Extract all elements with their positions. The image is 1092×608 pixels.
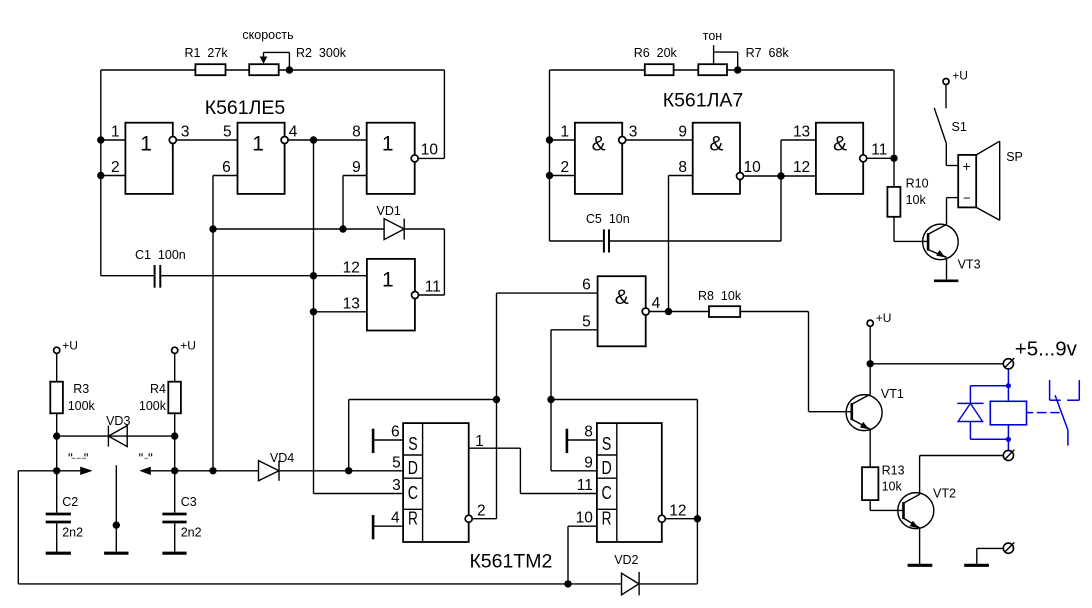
svg-text:9: 9 (584, 454, 593, 471)
svg-text:3: 3 (181, 124, 190, 141)
svg-text:VD4: VD4 (270, 451, 294, 465)
svg-text:VT1: VT1 (881, 387, 904, 401)
svg-text:6: 6 (222, 159, 231, 176)
svg-text:100k: 100k (68, 399, 96, 413)
svg-text:VD2: VD2 (614, 553, 638, 567)
svg-text:R10: R10 (906, 177, 929, 191)
svg-text:VD1: VD1 (377, 204, 401, 218)
svg-text:S1: S1 (952, 120, 967, 134)
svg-text:1: 1 (560, 124, 569, 141)
svg-text:R2 300k: R2 300k (296, 46, 347, 60)
svg-text:100k: 100k (139, 399, 167, 413)
svg-text:S: S (602, 434, 611, 454)
svg-text:R: R (602, 508, 612, 528)
svg-text:тон: тон (703, 29, 723, 43)
svg-text:8: 8 (678, 159, 687, 176)
svg-text:10: 10 (744, 159, 762, 176)
svg-text:11: 11 (425, 278, 441, 295)
svg-text:+U: +U (876, 311, 892, 325)
svg-text:скорость: скорость (242, 28, 293, 42)
svg-text:2n2: 2n2 (62, 526, 83, 540)
svg-text:C3: C3 (181, 495, 197, 509)
svg-text:6: 6 (582, 277, 591, 294)
svg-text:R8 10k: R8 10k (698, 289, 742, 303)
svg-text:2: 2 (111, 159, 120, 176)
svg-text:R3: R3 (73, 382, 89, 396)
svg-text:10k: 10k (882, 480, 903, 494)
svg-text:C: C (601, 483, 611, 503)
svg-text:К561ЛА7: К561ЛА7 (663, 90, 744, 112)
svg-text:C: C (408, 483, 418, 503)
svg-text:12: 12 (669, 503, 686, 520)
svg-text:R7 68k: R7 68k (746, 46, 790, 60)
svg-text:К561ЛЕ5: К561ЛЕ5 (205, 97, 286, 119)
svg-text:8: 8 (584, 424, 593, 441)
svg-text:D: D (602, 458, 612, 478)
svg-text:12: 12 (343, 259, 360, 276)
svg-text:&: & (833, 133, 847, 156)
svg-text:VT2: VT2 (933, 487, 956, 501)
svg-text:1: 1 (382, 269, 394, 292)
svg-text:4: 4 (391, 510, 400, 527)
svg-text:3: 3 (629, 124, 638, 141)
svg-text:4: 4 (652, 295, 661, 312)
svg-text:13: 13 (343, 295, 360, 312)
svg-text:1: 1 (475, 433, 484, 450)
svg-text:C2: C2 (62, 495, 78, 509)
svg-text:9: 9 (352, 159, 361, 176)
svg-text:11: 11 (577, 477, 593, 494)
svg-text:5: 5 (392, 454, 401, 471)
svg-text:−: − (963, 191, 971, 206)
svg-text:8: 8 (352, 124, 361, 141)
svg-text:R1 27k: R1 27k (185, 46, 229, 60)
svg-text:C1 100n: C1 100n (135, 248, 186, 262)
svg-text:12: 12 (793, 159, 810, 176)
svg-text:К561ТМ2: К561ТМ2 (469, 550, 552, 572)
svg-text:2: 2 (560, 159, 569, 176)
svg-text:+5...9v: +5...9v (1015, 338, 1078, 361)
svg-text:5: 5 (223, 124, 232, 141)
svg-text:&: & (709, 133, 723, 156)
svg-text:D: D (408, 458, 418, 478)
svg-text:13: 13 (793, 124, 810, 141)
svg-text:+: + (963, 158, 971, 174)
svg-text:3: 3 (392, 477, 401, 494)
svg-text:10: 10 (421, 142, 439, 159)
svg-text:R13: R13 (882, 464, 905, 478)
svg-text:&: & (615, 286, 629, 309)
svg-text:&: & (592, 133, 606, 156)
svg-text:+U: +U (952, 68, 968, 82)
svg-text:S: S (408, 434, 417, 454)
svg-text:5: 5 (582, 313, 591, 330)
svg-text:SP: SP (1006, 150, 1023, 164)
svg-text:9: 9 (678, 124, 687, 141)
svg-text:1: 1 (252, 132, 264, 155)
svg-text:R: R (408, 508, 418, 528)
svg-text:11: 11 (871, 141, 887, 158)
svg-text:VT3: VT3 (958, 258, 981, 272)
svg-text:+U: +U (62, 339, 78, 353)
svg-text:1: 1 (111, 124, 120, 141)
svg-text:2: 2 (477, 503, 486, 520)
svg-text:4: 4 (289, 124, 298, 141)
svg-text:2n2: 2n2 (181, 526, 202, 540)
svg-text:1: 1 (382, 132, 394, 155)
svg-text:C5 10n: C5 10n (586, 212, 630, 226)
svg-text:R6 20k: R6 20k (634, 46, 678, 60)
svg-text:+U: +U (180, 339, 196, 353)
svg-text:1: 1 (140, 132, 152, 155)
svg-text:R4: R4 (150, 382, 166, 396)
svg-text:10: 10 (576, 510, 594, 527)
svg-text:VD3: VD3 (106, 414, 130, 428)
svg-text:10k: 10k (906, 193, 927, 207)
svg-text:6: 6 (391, 424, 400, 441)
